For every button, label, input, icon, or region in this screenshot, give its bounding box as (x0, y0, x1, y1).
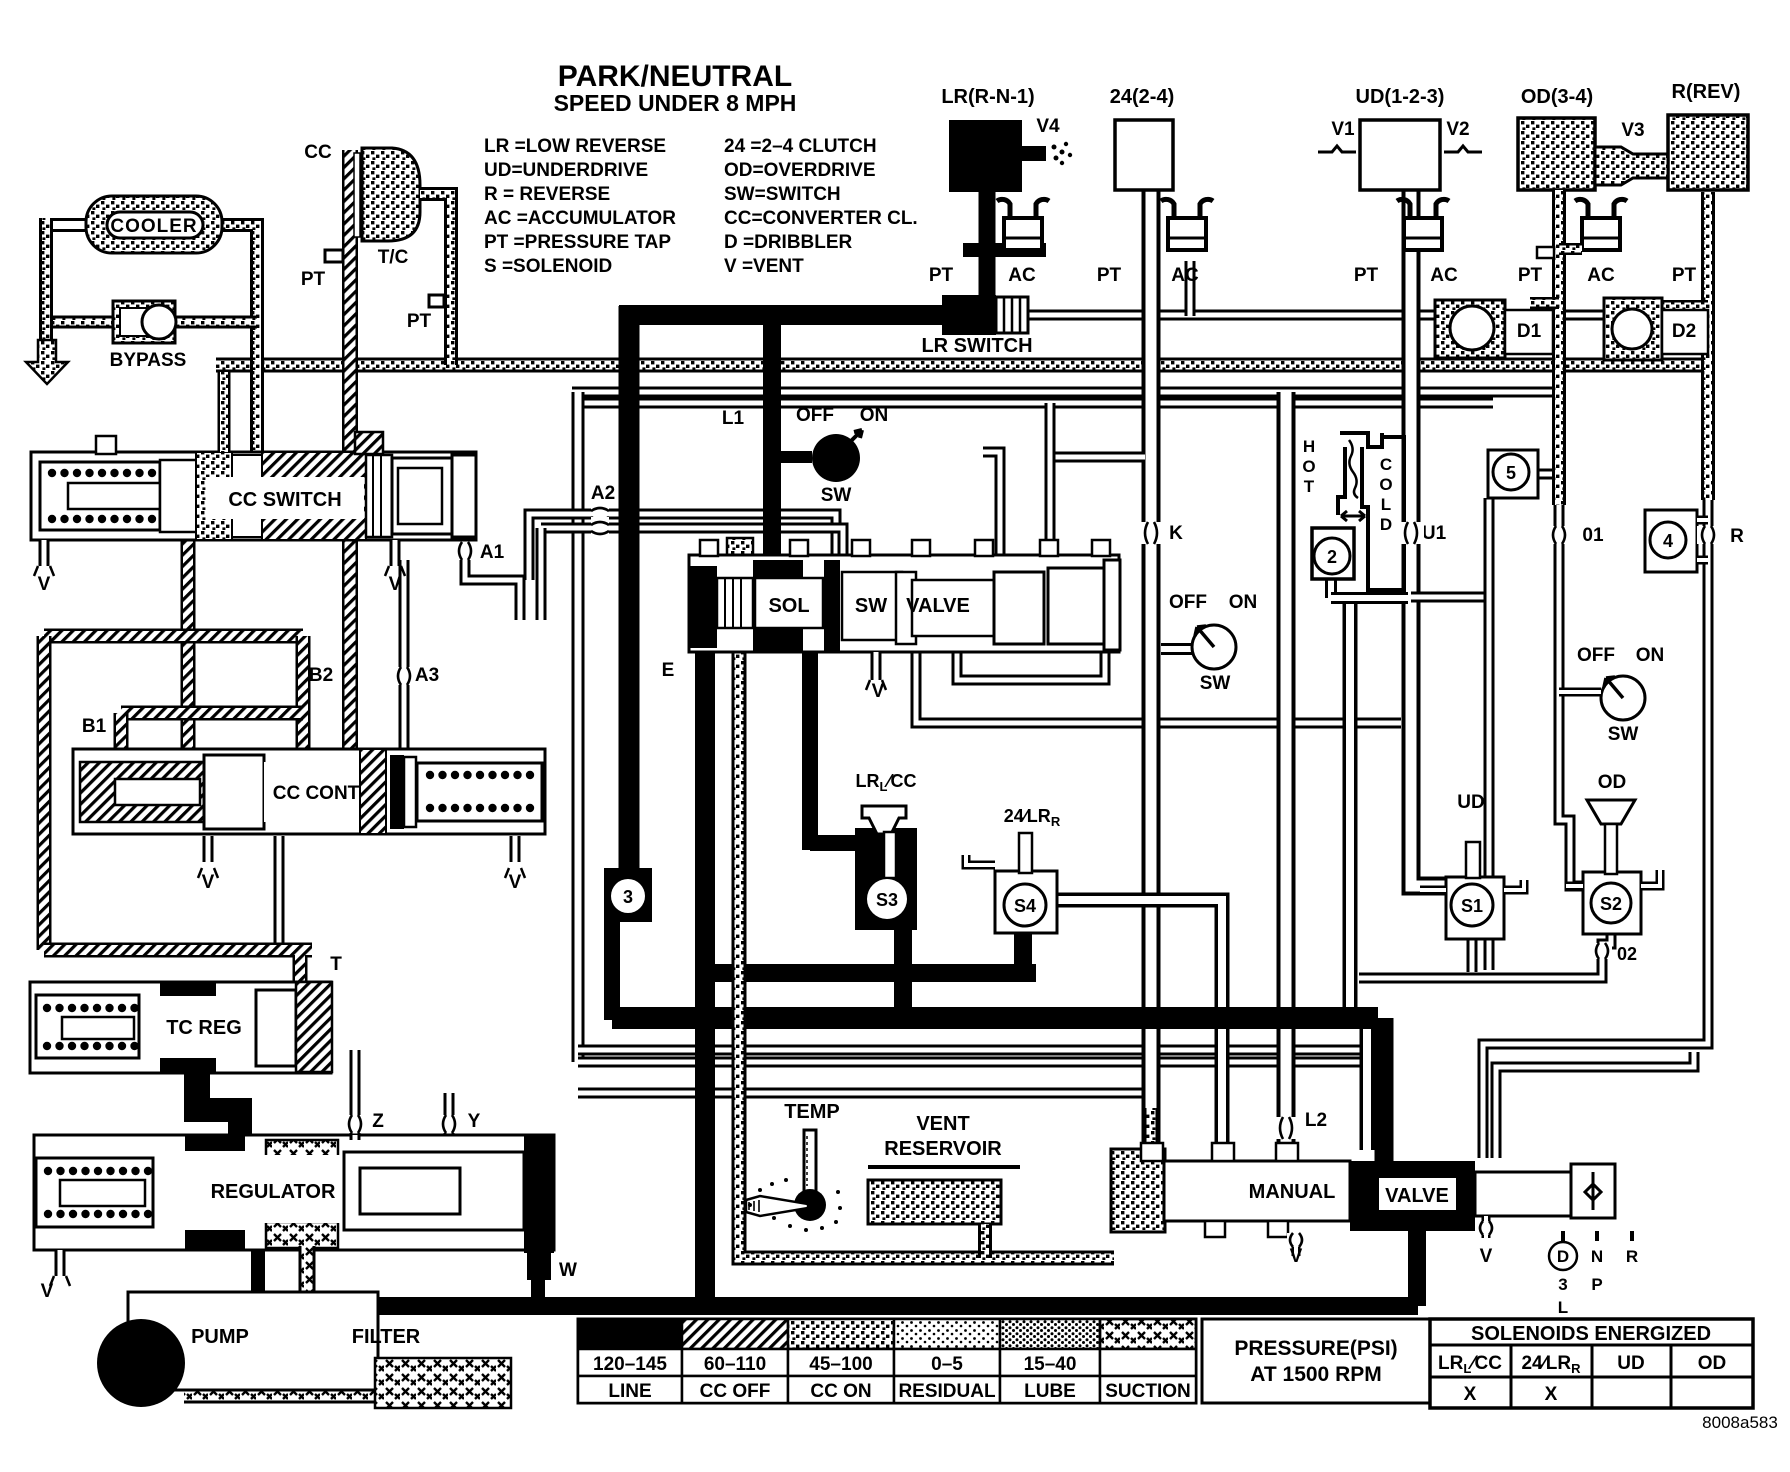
svg-text:SOL: SOL (768, 595, 809, 617)
svg-text:TC REG: TC REG (166, 1017, 242, 1039)
line regulator drain (251, 1248, 265, 1306)
svg-text:PT: PT (929, 265, 954, 286)
svg-text:R(REV): R(REV) (1672, 81, 1741, 103)
svg-text:OD: OD (1698, 1353, 1727, 1374)
svg-text:D1: D1 (1517, 321, 1542, 342)
wire 01 line to S2 (1559, 500, 1583, 886)
svg-text:CC OFF: CC OFF (700, 1381, 771, 1402)
svg-text:D2: D2 (1672, 321, 1696, 342)
svg-text:PT =PRESSURE TAP: PT =PRESSURE TAP (484, 232, 671, 253)
pressure tap OD (1537, 247, 1554, 258)
svg-text:OD=OVERDRIVE: OD=OVERDRIVE (724, 160, 876, 181)
LR clutch box (949, 120, 1022, 192)
svg-text:W: W (559, 1260, 577, 1281)
wire A3 line (399, 560, 410, 750)
svg-text:AC: AC (1171, 265, 1199, 286)
svg-text:24(2-4): 24(2-4) (1110, 86, 1174, 108)
wire hatched to TC REG (44, 943, 312, 958)
svg-text:N: N (1591, 1247, 1603, 1266)
svg-text:R = REVERSE: R = REVERSE (484, 184, 610, 205)
CC switch valve body (31, 452, 476, 540)
svg-text:PT: PT (407, 311, 432, 332)
svg-text:SOLENOIDS ENERGIZED: SOLENOIDS ENERGIZED (1471, 1323, 1711, 1345)
line pressure to restrictor 3 (619, 306, 640, 870)
svg-text:LR(R-N-1): LR(R-N-1) (941, 86, 1034, 108)
svg-text:V: V (202, 872, 215, 893)
svg-text:PT: PT (1672, 265, 1697, 286)
svg-text:S =SOLENOID: S =SOLENOID (484, 256, 612, 277)
svg-text:FILTER: FILTER (352, 1326, 421, 1348)
wire 24 clutch line K (1142, 190, 1161, 1150)
svg-text:T: T (330, 954, 342, 975)
pressure switch SW3 (1601, 676, 1645, 720)
svg-text:COOLER: COOLER (110, 216, 197, 237)
accumulator LR (997, 199, 1049, 216)
svg-text:TEMP: TEMP (784, 1101, 840, 1123)
TC REG valve (293, 955, 308, 985)
line TC REG to regulator (184, 1068, 252, 1140)
svg-text:X: X (1464, 1384, 1477, 1405)
restrictor 2 (1325, 579, 1337, 598)
svg-text:45–100: 45–100 (809, 1354, 872, 1375)
svg-text:SW: SW (1200, 673, 1231, 694)
accumulator 24 (1161, 199, 1213, 216)
svg-text:8008a583: 8008a583 (1702, 1413, 1778, 1432)
svg-text:RESERVOIR: RESERVOIR (884, 1138, 1002, 1160)
solenoid S4 (995, 871, 1057, 933)
solenoid S3 (802, 652, 818, 850)
svg-text:L1: L1 (722, 408, 745, 429)
wire 5 riser (1484, 498, 1495, 970)
svg-text:SW=SWITCH: SW=SWITCH (724, 184, 841, 205)
svg-text:VALVE: VALVE (906, 595, 970, 617)
cooler exhaust arrow (26, 340, 68, 384)
vent V right (390, 540, 401, 566)
torque converter body (362, 148, 420, 241)
svg-text:OD(3-4): OD(3-4) (1521, 86, 1593, 108)
converter/cooler pressure line (45-100) (216, 358, 1703, 373)
svg-text:L: L (1558, 1298, 1568, 1317)
svg-text:5: 5 (1506, 463, 1516, 483)
svg-text:15–40: 15–40 (1024, 1354, 1077, 1375)
svg-text:OFF: OFF (1577, 645, 1615, 666)
svg-text:A1: A1 (480, 542, 505, 563)
wire 24 accumulator drop (1185, 261, 1196, 316)
pressure psi box (1202, 1319, 1430, 1403)
svg-text:60–110: 60–110 (704, 1354, 766, 1375)
lube line through reservoir (739, 560, 1114, 1258)
pump (128, 1292, 378, 1390)
UD clutch box (1360, 120, 1440, 190)
svg-text:L2: L2 (1305, 1110, 1327, 1131)
restrictor 3 (604, 868, 652, 922)
line feed to manual valve (1375, 1018, 1394, 1165)
wire outer loop top (572, 387, 1559, 398)
line W branch (531, 1252, 545, 1306)
svg-text:SW: SW (821, 485, 852, 506)
svg-text:E: E (662, 660, 675, 681)
vent V left (39, 540, 50, 566)
svg-text:B1: B1 (82, 716, 107, 737)
24 clutch box (1115, 120, 1173, 190)
reverse line stippled (1701, 192, 1715, 500)
svg-text:AC =ACCUMULATOR: AC =ACCUMULATOR (484, 208, 676, 229)
wire B1 drop (114, 713, 129, 762)
wire lower loop to feed drop (578, 1045, 1367, 1056)
svg-text:2: 2 (1327, 547, 1337, 567)
solenoid S2 (1583, 872, 1641, 934)
wire OD clutch line (stippled) (1552, 190, 1566, 505)
svg-text:R: R (1626, 1247, 1638, 1266)
svg-text:C: C (1380, 455, 1392, 474)
svg-text:SW: SW (1608, 724, 1639, 745)
converter outlet pipe (420, 194, 451, 365)
svg-text:01: 01 (1582, 525, 1604, 546)
svg-text:AT 1500 RPM: AT 1500 RPM (1250, 1363, 1382, 1386)
manual valve (1164, 1161, 1350, 1221)
restrictor 5 (1488, 450, 1538, 498)
wire A2 lower line (541, 528, 843, 556)
reverse clutch box (1668, 115, 1748, 190)
svg-text:A2: A2 (591, 483, 615, 504)
svg-text:V =VENT: V =VENT (724, 256, 804, 277)
svg-text:V: V (509, 872, 522, 893)
svg-text:PRESSURE(PSI): PRESSURE(PSI) (1234, 1337, 1397, 1360)
pressure switch SW1 (black) (812, 434, 860, 482)
svg-text:V1: V1 (1331, 119, 1355, 140)
line pressure L1 branch (763, 306, 781, 570)
wire thermal outlet to feed bar (1343, 598, 1358, 1014)
wire A2 lower drop (536, 528, 547, 620)
svg-text:MANUAL: MANUAL (1249, 1181, 1336, 1203)
svg-text:BYPASS: BYPASS (110, 350, 187, 371)
svg-text:T/C: T/C (378, 247, 409, 268)
svg-text:S1: S1 (1461, 896, 1483, 916)
svg-text:R: R (1730, 526, 1744, 547)
wire feed pipe at manual valve (1360, 1024, 1375, 1150)
pressure legend table (578, 1319, 1196, 1403)
svg-text:SPEED UNDER 8 MPH: SPEED UNDER 8 MPH (554, 90, 797, 116)
line E branch down to pump line (695, 630, 715, 1306)
svg-text:RESIDUAL: RESIDUAL (898, 1381, 996, 1402)
svg-text:PT: PT (301, 269, 326, 290)
svg-text:LR =LOW REVERSE: LR =LOW REVERSE (484, 136, 666, 157)
svg-text:CC: CC (304, 142, 332, 163)
wire CC CONT outlet (274, 836, 285, 948)
svg-text:CC CONT: CC CONT (273, 783, 360, 804)
svg-text:AC: AC (1008, 265, 1036, 286)
accumulator OD (1575, 199, 1627, 216)
line pump output (133, 1297, 1418, 1315)
wire switch valve up-left port (983, 452, 1000, 567)
svg-text:02: 02 (1617, 944, 1637, 964)
svg-text:V: V (1290, 1246, 1303, 1267)
line manual valve to pump line (1408, 1228, 1426, 1306)
wire switch valve to U1 low run (916, 652, 1401, 723)
svg-text:CC=CONVERTER CL.: CC=CONVERTER CL. (724, 208, 918, 229)
svg-text:0–5: 0–5 (931, 1354, 963, 1375)
svg-text:PUMP: PUMP (191, 1326, 249, 1348)
pressure switch SW2 (1161, 643, 1194, 655)
svg-text:AC: AC (1430, 265, 1458, 286)
line S3 drop (894, 922, 912, 1018)
wire link to K line (1053, 452, 1145, 463)
line main feed bar (612, 1007, 1378, 1029)
dribbler D2 (1658, 300, 1708, 312)
wire 5 to 01 (1538, 469, 1559, 480)
wire reverse line inner bracket (1496, 1052, 1694, 1158)
svg-text:Y: Y (468, 1111, 481, 1132)
svg-text:LR SWITCH: LR SWITCH (921, 335, 1032, 357)
pump rotor (97, 1319, 185, 1407)
line LR clutch feed (979, 190, 996, 300)
svg-text:PT: PT (1097, 265, 1122, 286)
wire switch valve top port (1045, 403, 1056, 567)
svg-text:S2: S2 (1600, 894, 1622, 914)
svg-text:VALVE: VALVE (1385, 1185, 1449, 1207)
wire UD clutch line U1 to S1 (1411, 190, 1446, 886)
solenoid S1 (1446, 877, 1504, 939)
svg-text:B2: B2 (309, 665, 333, 686)
svg-text:PT: PT (1518, 265, 1543, 286)
LR switch (942, 295, 996, 335)
wire S2 outlet (1359, 935, 1611, 978)
regulator body (34, 1135, 554, 1250)
svg-text:D =DRIBBLER: D =DRIBBLER (724, 232, 853, 253)
switch valve body (689, 555, 1119, 652)
svg-text:H: H (1303, 437, 1315, 456)
wire LR accumulator tee (963, 243, 1046, 257)
thermal element HOT/COLD (1338, 433, 1382, 515)
svg-text:P: P (1591, 1275, 1602, 1294)
wire reservoir top line (578, 1093, 1150, 1150)
line restrictor 3 outlet (604, 918, 620, 1020)
wire B2 pipe (181, 528, 196, 755)
wire converter line through valve (342, 455, 358, 755)
solenoids energized table (1430, 1319, 1753, 1408)
svg-text:S4: S4 (1014, 896, 1036, 916)
svg-text:UD(1-2-3): UD(1-2-3) (1356, 86, 1445, 108)
wire hot line L2 (1277, 392, 1296, 1150)
svg-text:Z: Z (372, 1111, 384, 1132)
pressure tap PT converter (325, 250, 343, 262)
accumulator UD (1397, 199, 1449, 216)
svg-text:V3: V3 (1621, 120, 1644, 141)
svg-text:PARK/NEUTRAL: PARK/NEUTRAL (558, 60, 792, 93)
svg-text:SUCTION: SUCTION (1105, 1381, 1191, 1402)
svg-text:L: L (1381, 495, 1391, 514)
svg-text:OFF: OFF (1169, 592, 1207, 613)
line pressure top bar (619, 305, 946, 325)
svg-text:LUBE: LUBE (1024, 1381, 1076, 1402)
wire inner loop top (584, 398, 1493, 409)
svg-text:24 =2–4 CLUTCH: 24 =2–4 CLUTCH (724, 136, 877, 157)
wire left hatched riser (37, 636, 52, 950)
restrictor 4 (1645, 510, 1697, 572)
svg-text:PT: PT (1354, 265, 1379, 286)
svg-text:ON: ON (860, 405, 889, 426)
wire U1 to 5 riser (1411, 592, 1489, 603)
svg-text:O: O (1302, 457, 1315, 476)
svg-text:U1: U1 (1422, 523, 1447, 544)
svg-text:D: D (1557, 1247, 1569, 1266)
line break marks (454, 542, 476, 560)
wire S4 outlet to manual valve (1057, 900, 1222, 1150)
svg-text:UD: UD (1617, 1353, 1644, 1374)
svg-text:AC: AC (1587, 265, 1615, 286)
wire LR switch to right side (1026, 310, 1712, 321)
dribbler D1 (1530, 297, 1559, 309)
svg-text:OFF: OFF (796, 405, 834, 426)
wire enclosure left (572, 392, 585, 1062)
wire Z line (350, 1050, 361, 1140)
svg-text:S3: S3 (876, 890, 898, 910)
svg-text:D: D (1380, 515, 1392, 534)
svg-text:120–145: 120–145 (593, 1354, 667, 1375)
cooler assembly (52, 218, 86, 232)
svg-text:CC SWITCH: CC SWITCH (228, 489, 341, 511)
svg-text:SW: SW (855, 595, 887, 617)
line S4 drop (1014, 930, 1032, 973)
svg-text:V4: V4 (1036, 116, 1060, 137)
vent flares (34, 566, 54, 576)
wire Y line (444, 1093, 455, 1140)
wire lower loop inner (578, 1057, 1367, 1068)
svg-text:UD=UNDERDRIVE: UD=UNDERDRIVE (484, 160, 648, 181)
converter charge pipe (60-110) (342, 150, 358, 455)
line lube/solenoid bar (705, 964, 1036, 982)
svg-text:3: 3 (623, 887, 633, 907)
svg-text:V: V (38, 574, 51, 595)
svg-text:4: 4 (1663, 531, 1673, 551)
CC cont valve body (73, 749, 545, 834)
bypass valve (113, 301, 175, 343)
svg-text:X: X (1545, 1384, 1558, 1405)
wire B1 cross (121, 706, 303, 721)
svg-text:O: O (1379, 475, 1392, 494)
filter (184, 1389, 380, 1404)
wire to pressure switch SW1 (772, 451, 812, 463)
svg-text:LINE: LINE (608, 1381, 651, 1402)
svg-text:ON: ON (1636, 645, 1665, 666)
svg-text:REGULATOR: REGULATOR (211, 1181, 336, 1203)
wire B1 hatched run (44, 629, 303, 644)
wire A2 line (529, 514, 836, 580)
wire reverse line to manual valve (1483, 500, 1708, 1158)
svg-text:UD: UD (1457, 792, 1484, 813)
port (355, 432, 383, 454)
svg-text:VENT: VENT (916, 1113, 969, 1135)
svg-text:T: T (1304, 477, 1315, 496)
svg-text:V2: V2 (1446, 119, 1469, 140)
svg-text:ON: ON (1229, 592, 1258, 613)
svg-text:OD: OD (1598, 772, 1627, 793)
wire S1 outlet (1467, 938, 1478, 972)
svg-text:K: K (1169, 523, 1183, 544)
TC reg body (30, 982, 331, 1073)
svg-text:A3: A3 (415, 665, 439, 686)
wire A1 line (465, 548, 520, 620)
wire B2 to CC CONT (296, 636, 311, 755)
manual valve positions D N R (1563, 1231, 1632, 1241)
svg-text:V: V (1480, 1246, 1493, 1267)
manual valve detent (1571, 1164, 1615, 1218)
svg-text:V: V (389, 574, 402, 595)
cooler (86, 196, 222, 253)
svg-text:CC ON: CC ON (810, 1381, 871, 1402)
wire switch valve lower loop (957, 652, 1105, 680)
svg-text:3: 3 (1558, 1275, 1567, 1294)
OD clutch box (1518, 118, 1595, 190)
line into pump (133, 1306, 149, 1330)
